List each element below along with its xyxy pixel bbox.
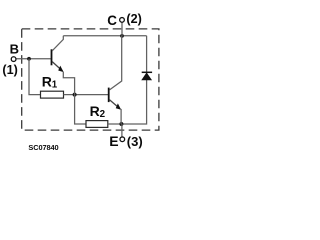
wire: R2 right along bottom rail to diode <box>108 36 147 124</box>
svg-text:C: C <box>107 13 117 28</box>
svg-text:R: R <box>90 103 100 119</box>
terminal E <box>120 137 125 142</box>
svg-text:(2): (2) <box>126 12 141 26</box>
transistor Q2 <box>109 36 122 124</box>
resistor R2 <box>86 121 108 128</box>
svg-text:(1): (1) <box>2 63 17 77</box>
node: base junction <box>27 57 31 61</box>
svg-text:B: B <box>10 42 19 57</box>
wire: emitter junction down to E terminal <box>121 124 123 136</box>
package outline (dashed box) <box>22 29 159 130</box>
transistor Q1 <box>52 36 75 95</box>
node: emitter junction <box>119 122 123 126</box>
svg-text:1: 1 <box>52 79 58 90</box>
terminal C <box>120 18 125 23</box>
terminal B <box>11 57 16 62</box>
diode D1 (freewheel, anode bottom) <box>142 72 152 80</box>
node: R1/Q2-base junction <box>73 93 77 97</box>
resistor R1 <box>41 91 64 98</box>
svg-text:R: R <box>42 74 52 90</box>
wire: R1 right to node <box>64 94 109 96</box>
node: collector junction <box>120 34 124 38</box>
wire: B terminal to Q1 base <box>16 58 50 60</box>
svg-text:2: 2 <box>100 109 106 120</box>
svg-text:SC07840: SC07840 <box>28 143 58 152</box>
svg-text:E: E <box>109 133 118 149</box>
wire: top rail (Q1 collector to diode) <box>63 35 146 37</box>
wire: elbow down to R2 <box>75 95 86 124</box>
wire: left vertical down to R1 <box>29 59 41 95</box>
wire: collector junction up to C terminal <box>121 22 123 36</box>
svg-text:(3): (3) <box>127 134 143 149</box>
